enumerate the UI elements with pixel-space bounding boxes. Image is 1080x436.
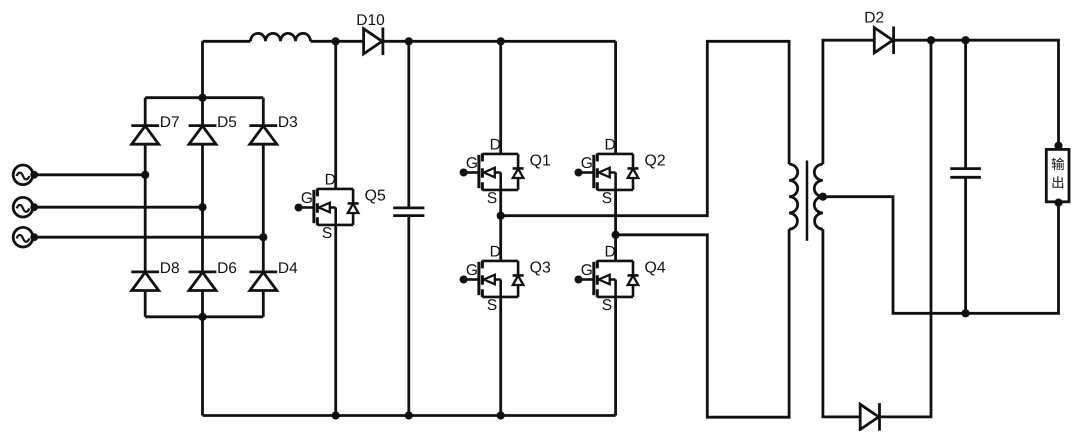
wire center tap to output minus rail <box>823 197 1059 314</box>
transformer T1 primary winding <box>789 164 798 229</box>
capacitor C2 (output) <box>950 40 981 313</box>
svg-text:D7: D7 <box>160 114 180 131</box>
capacitor C1 (DC bus) <box>393 41 424 415</box>
svg-text:D8: D8 <box>160 260 180 277</box>
svg-text:Q2: Q2 <box>645 152 666 169</box>
node bus capacitor bottom junction <box>405 411 413 419</box>
AC source phase B <box>13 197 38 217</box>
transformer T1 core <box>806 161 809 241</box>
wire top rail left segment <box>203 40 251 43</box>
wire bridge bottom rail <box>145 315 263 318</box>
wire D10 to H-bridge top <box>383 40 616 43</box>
svg-text:G: G <box>466 262 478 279</box>
svg-text:S: S <box>322 225 332 242</box>
wire column D7/D8 <box>144 98 147 317</box>
node riser top junction <box>927 36 935 44</box>
node output capacitor top junction <box>962 36 970 44</box>
svg-text:D5: D5 <box>217 114 237 131</box>
svg-text:S: S <box>487 190 497 207</box>
wire column D5/D6 <box>201 41 204 415</box>
wire Q2-Q4 midpoint lead <box>614 190 617 261</box>
diode D3 <box>249 124 277 127</box>
wire phase C to bridge <box>34 236 263 239</box>
wire Q5 source lead <box>334 225 337 416</box>
diode D2 <box>874 28 893 53</box>
svg-text:D2: D2 <box>864 10 884 27</box>
diode D5 <box>189 124 217 127</box>
wire column D3/D4 <box>262 98 265 317</box>
wire bottom rail <box>203 414 616 417</box>
diode D1 (bottom, unlabeled) <box>860 404 879 429</box>
node bridge top / riser junction <box>198 94 206 102</box>
diode D4 <box>249 270 277 273</box>
node Q5 source junction <box>332 411 340 419</box>
svg-text:D: D <box>604 136 615 153</box>
diode D7 <box>131 124 159 127</box>
svg-text:G: G <box>581 155 593 172</box>
node Q5 drain junction <box>332 37 340 45</box>
svg-text:D6: D6 <box>217 260 237 277</box>
inductor L1 <box>251 33 311 41</box>
wire D2 to output plus rail <box>894 40 1059 146</box>
node Q3 source junction <box>497 411 505 419</box>
node left bridge midpoint <box>497 212 505 220</box>
node load box bottom <box>1054 199 1062 207</box>
svg-text:D: D <box>604 243 615 260</box>
svg-text:S: S <box>602 190 612 207</box>
wire secondary top lead <box>823 40 874 164</box>
svg-text:D: D <box>325 171 336 188</box>
transistor Q1 <box>460 136 551 207</box>
wire Q5 drain lead <box>334 41 337 189</box>
wire phase B to bridge <box>34 206 202 209</box>
svg-text:S: S <box>487 297 497 314</box>
svg-text:G: G <box>301 190 313 207</box>
svg-text:输: 输 <box>1051 157 1065 172</box>
wire bridge top rail <box>145 96 263 99</box>
wire Q1 drain lead <box>499 41 502 154</box>
svg-text:Q5: Q5 <box>365 187 386 204</box>
svg-text:S: S <box>602 297 612 314</box>
node bridge bottom / dropper junction <box>198 313 206 321</box>
svg-text:Q1: Q1 <box>530 152 551 169</box>
node Q1 drain junction <box>497 37 505 45</box>
diode D8 <box>131 270 159 273</box>
node output capacitor bottom junction <box>962 309 970 317</box>
node bus capacitor top junction <box>405 37 413 45</box>
svg-text:D4: D4 <box>278 260 298 277</box>
wire Q3 source lead <box>499 297 502 416</box>
svg-text:Q4: Q4 <box>645 259 666 276</box>
AC source phase A <box>13 165 38 185</box>
svg-text:G: G <box>466 155 478 172</box>
wire Q4 source lead <box>614 297 617 416</box>
load box 输出 (output) <box>1046 149 1069 201</box>
wire secondary bottom lead <box>823 229 860 417</box>
wire Q1-Q3 midpoint lead <box>499 190 502 261</box>
wire phase A to bridge <box>34 173 145 176</box>
wire Q2 drain lead <box>614 41 617 154</box>
svg-text:Q3: Q3 <box>530 259 551 276</box>
AC source phase C <box>13 227 38 247</box>
diode D6 <box>189 270 217 273</box>
node phase C / D3-D4 junction <box>259 233 267 241</box>
transistor Q2 <box>575 136 666 207</box>
node load box top <box>1054 142 1062 150</box>
svg-text:D: D <box>490 136 501 153</box>
svg-text:D3: D3 <box>278 114 298 131</box>
svg-text:D10: D10 <box>356 12 385 29</box>
node phase A / D7-D8 junction <box>141 171 149 179</box>
svg-text:D: D <box>490 243 501 260</box>
wire right midpoint to primary bottom <box>616 229 790 417</box>
diode D10 <box>364 29 383 54</box>
node secondary center tap <box>819 193 827 201</box>
transistor Q5 <box>295 171 386 242</box>
transistor Q3 <box>460 243 551 314</box>
node phase B / D5-D6 junction <box>198 203 206 211</box>
transistor Q4 <box>575 243 666 314</box>
svg-text:G: G <box>581 262 593 279</box>
wire bottom diode to riser <box>880 40 932 417</box>
transformer T1 secondary winding <box>814 164 823 229</box>
node right bridge midpoint <box>612 231 620 239</box>
wire inductor to D10 <box>311 40 364 43</box>
svg-text:出: 出 <box>1051 176 1065 191</box>
wire left midpoint to primary top <box>501 41 789 215</box>
